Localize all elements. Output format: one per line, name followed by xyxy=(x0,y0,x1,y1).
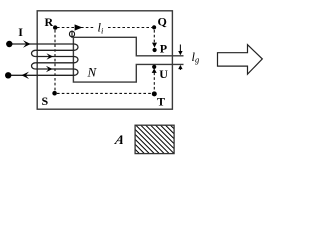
svg-text:T: T xyxy=(157,95,165,109)
svg-text:S: S xyxy=(42,94,49,108)
svg-text:A: A xyxy=(113,132,126,147)
svg-text:N: N xyxy=(87,64,98,79)
svg-text:P: P xyxy=(160,41,167,55)
svg-text:U: U xyxy=(159,67,168,81)
svg-text:I: I xyxy=(18,25,23,39)
svg-text:Q: Q xyxy=(158,15,167,29)
svg-text:R: R xyxy=(45,15,54,29)
svg-text:li: li xyxy=(98,21,104,36)
svg-text:lg: lg xyxy=(192,50,200,65)
